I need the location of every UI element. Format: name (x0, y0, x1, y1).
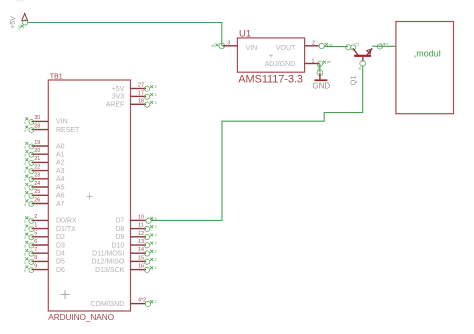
svg-text:VIN: VIN (56, 119, 68, 126)
TB1 pin 27 +5V (112, 83, 157, 93)
TB1 pin 5 D2 (24, 231, 65, 242)
svg-text:23: 23 (34, 173, 40, 179)
svg-text:0: 0 (155, 217, 157, 221)
svg-text:19: 19 (34, 140, 40, 146)
svg-text:A4: A4 (56, 176, 65, 183)
svg-text:6: 6 (34, 239, 37, 245)
svg-text:D4: D4 (56, 251, 65, 258)
svg-text:D12/MISO: D12/MISO (92, 259, 125, 266)
wire net from U1 VOUT to Q1 collector (324, 46, 348, 48)
TB1 pin 2 D0/RX (24, 214, 77, 225)
svg-text:COM/GND: COM/GND (90, 301, 124, 308)
svg-text:w 4: w 4 (384, 42, 389, 46)
svg-text:A6: A6 (56, 193, 65, 200)
svg-text:0: 0 (155, 258, 157, 262)
svg-text:7: 7 (34, 247, 37, 253)
TB1 pin 10 D7 (115, 214, 156, 224)
TB1 pin 15 D12/MISO (92, 255, 157, 265)
svg-text:A7: A7 (56, 201, 65, 208)
svg-text:,modul: ,modul (414, 49, 441, 59)
wire U1 pin1 to GND (319, 64, 321, 72)
TB1 pin 13 D10 (111, 239, 156, 249)
svg-text:p0: p0 (327, 60, 331, 64)
svg-text:15: 15 (138, 255, 144, 261)
svg-text:1: 1 (34, 222, 37, 228)
svg-text:2: 2 (312, 41, 315, 47)
TB1 pin 9 D6 (24, 263, 65, 274)
junction circle at U1 VIN pin 3 (211, 43, 225, 49)
svg-text:0: 0 (24, 170, 26, 174)
svg-text:A0: A0 (56, 143, 65, 150)
svg-text:GND: GND (312, 81, 330, 90)
svg-text:D6: D6 (56, 267, 65, 274)
junction circle Q1 base (358, 61, 365, 70)
svg-text:+5V: +5V (10, 16, 17, 29)
origin cross mid (86, 193, 92, 199)
svg-text:3V3: 3V3 (112, 94, 125, 101)
svg-text:ARDUINO_NANO: ARDUINO_NANO (48, 312, 114, 322)
svg-text:A5: A5 (56, 184, 65, 191)
svg-text:0: 0 (24, 154, 26, 158)
svg-text:U1: U1 (239, 28, 251, 39)
module box (396, 22, 454, 114)
TB1 pin 4*2 COM/GND (90, 298, 156, 308)
svg-text:D13/SCK: D13/SCK (95, 267, 125, 274)
U1 pin 2 VOUT (305, 41, 320, 47)
svg-text:ADJ/GND: ADJ/GND (265, 61, 296, 68)
TB1 pin 25 A6 (24, 189, 64, 200)
svg-text:28: 28 (34, 123, 40, 129)
svg-text:10: 10 (138, 214, 144, 220)
svg-text:D3: D3 (56, 242, 65, 249)
TB1 pin 8 D5 (24, 255, 65, 266)
svg-text:0: 0 (155, 85, 157, 89)
svg-text:0: 0 (24, 121, 26, 125)
svg-text:D0/RX: D0/RX (56, 218, 77, 225)
ground symbol GND (312, 73, 330, 91)
svg-text:0: 0 (155, 266, 157, 270)
svg-text:D11/MOSI: D11/MOSI (92, 251, 124, 258)
svg-text:Q1: Q1 (348, 75, 357, 85)
junction circle at U1 VOUT pin 2 (319, 43, 333, 49)
TB1 pin 20 A1 (24, 148, 64, 159)
TB1 pin 19 A0 (24, 140, 64, 151)
svg-text:4*2: 4*2 (138, 298, 146, 304)
TB1 pin 6 D3 (24, 239, 65, 250)
svg-text:0: 0 (24, 253, 26, 257)
svg-text:D9: D9 (115, 234, 124, 241)
svg-text:0: 0 (155, 233, 157, 237)
svg-text:13: 13 (138, 239, 144, 245)
TB1 pin 16 D13/SCK (95, 264, 157, 274)
svg-text:A3: A3 (56, 168, 65, 175)
svg-text:B: B (358, 67, 362, 69)
TB1 pin 28 RESET (24, 123, 80, 133)
transistor Q1 (353, 48, 372, 61)
svg-text:+5V: +5V (112, 86, 125, 93)
svg-text:0: 0 (24, 178, 26, 182)
wire net +5V from supply to U1 VIN pin 3 (28, 23, 222, 46)
wire net from Q1 base to TB1 D7 pin 10 (151, 66, 363, 221)
svg-text:VOUT: VOUT (276, 45, 296, 52)
svg-text:A1: A1 (56, 152, 65, 159)
open pin circle at +5V (18, 20, 28, 31)
svg-text:0: 0 (155, 93, 157, 97)
TB1 pin 21 A2 (24, 156, 64, 167)
TB1 pin 11 D8 (115, 223, 156, 233)
svg-text:0: 0 (24, 195, 26, 199)
svg-text:3: 3 (227, 41, 230, 47)
svg-text:25: 25 (34, 189, 40, 195)
svg-text:20: 20 (34, 148, 40, 154)
svg-text:0: 0 (24, 220, 26, 224)
svg-text:0: 0 (24, 145, 26, 149)
svg-text:0: 0 (24, 261, 26, 265)
svg-text:17: 17 (138, 90, 144, 96)
TB1 pin 22 A3 (24, 164, 64, 175)
junction circle at U1 pin 1 (317, 60, 331, 67)
U1 pin 3 VIN (222, 41, 237, 47)
wire net from Q1 emitter to module box (372, 45, 396, 47)
svg-text:A2: A2 (56, 160, 65, 167)
TB1 pin 26 A7 (24, 197, 64, 208)
svg-text:c*2: c*2 (355, 43, 360, 47)
TB1 pin 7 D4 (24, 247, 65, 258)
svg-text:0: 0 (155, 101, 157, 105)
TB1 pin 17 3V3 (112, 90, 157, 100)
svg-text:0: 0 (24, 129, 26, 133)
svg-text:RESET: RESET (56, 127, 80, 134)
svg-text:30: 30 (34, 115, 40, 121)
svg-text:0: 0 (24, 269, 26, 273)
TB1 pin 12 D9 (115, 231, 156, 241)
TB1 pin 18 AREF (106, 98, 157, 108)
svg-text:0: 0 (24, 203, 26, 207)
svg-text:0: 0 (155, 300, 157, 304)
origin cross TB1 (61, 290, 70, 299)
svg-text:12: 12 (138, 231, 144, 237)
svg-text:21: 21 (34, 156, 40, 162)
svg-text:0: 0 (24, 236, 26, 240)
svg-text:+5V: +5V (16, 0, 26, 4)
svg-text:D7: D7 (115, 218, 124, 225)
svg-text:8: 8 (34, 255, 37, 261)
svg-text:9: 9 (34, 263, 37, 269)
TB1 pin 1 D1/TX (24, 222, 76, 233)
svg-text:0: 0 (155, 250, 157, 254)
junction circle Q1 emitter (377, 42, 385, 49)
junction circle Q1 collector pin end (351, 43, 360, 51)
svg-text:0: 0 (24, 162, 26, 166)
svg-text:D8: D8 (115, 226, 124, 233)
TB1 pin 24 A5 (24, 181, 64, 192)
svg-text:0: 0 (155, 242, 157, 246)
svg-text:0: 0 (155, 225, 157, 229)
svg-text:D5: D5 (56, 259, 65, 266)
svg-text:0: 0 (24, 244, 26, 248)
svg-text:3V: 3V (211, 44, 216, 48)
svg-text:AREF: AREF (106, 102, 125, 109)
svg-text:26: 26 (34, 197, 40, 203)
svg-text:D1/TX: D1/TX (56, 226, 76, 233)
svg-text:18: 18 (138, 98, 144, 104)
svg-text:+5V: +5V (18, 24, 22, 31)
svg-text:D2: D2 (56, 234, 65, 241)
U1 pin 1 ADJ/GND (305, 58, 320, 64)
svg-text:24: 24 (34, 181, 40, 187)
TB1 pin 14 D11/MOSI (92, 247, 157, 257)
svg-text:1: 1 (312, 58, 315, 64)
open circle at GND symbol pin (317, 70, 323, 76)
svg-text:14: 14 (138, 247, 144, 253)
TB1 pin 30 VIN (24, 115, 67, 126)
svg-text:22: 22 (34, 164, 40, 170)
svg-text:2: 2 (34, 214, 37, 220)
svg-text:TB1: TB1 (50, 74, 63, 81)
voltage regulator U1 AMS1117-3.3 body (237, 38, 304, 72)
svg-text:VIN: VIN (246, 45, 258, 52)
svg-text:AMS1117-3.3: AMS1117-3.3 (238, 73, 303, 85)
TB1 pin 23 A4 (24, 173, 64, 184)
arduino TB1 body (48, 80, 130, 311)
svg-text:0: 0 (24, 228, 26, 232)
svg-text:5: 5 (34, 231, 37, 237)
svg-text:0: 0 (24, 186, 26, 190)
junction circle wire end at Q1 (346, 45, 351, 50)
svg-text:16: 16 (138, 264, 144, 270)
svg-text:D10: D10 (111, 242, 124, 249)
supply symbol +5V (10, 0, 28, 29)
svg-text:11: 11 (138, 223, 144, 229)
svg-text:27: 27 (138, 83, 144, 89)
